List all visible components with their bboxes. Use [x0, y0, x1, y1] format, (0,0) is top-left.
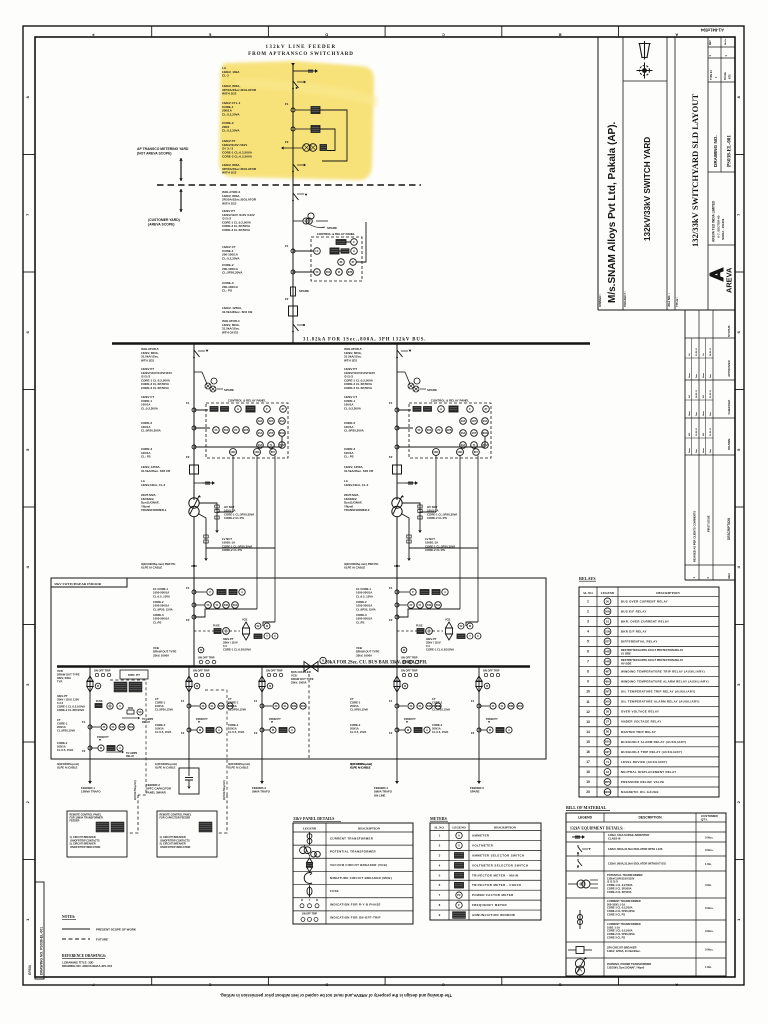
svg-text:51N: 51N: [129, 726, 134, 729]
svg-text:OVER VOLTAGE RELAY: OVER VOLTAGE RELAY: [621, 710, 659, 714]
zone tick right: [735, 154, 744, 156]
isolator-2 with earth switch: [292, 163, 294, 165]
svg-text:LEGEND: LEGEND: [452, 825, 466, 829]
svg-text:26T: 26T: [605, 690, 610, 694]
svg-text:CONTROL & RELAY PANEL: CONTROL & RELAY PANEL: [317, 232, 356, 236]
TR2 panel drop wires: [435, 456, 437, 513]
bom row4 potential transformer: [568, 883, 578, 885]
svg-text:B: B: [316, 899, 318, 902]
svg-text:kWh: kWh: [458, 452, 463, 454]
svg-text:ON OFF TRIP: ON OFF TRIP: [401, 669, 418, 673]
TR2 OLTC arrow: [393, 496, 402, 514]
zone tick right: [735, 506, 744, 508]
svg-text:Name: Name: [703, 411, 705, 416]
TR1 bay PT: [194, 371, 202, 373]
svg-text:20: 20: [586, 790, 590, 794]
bom row8 power transformer: [575, 959, 584, 968]
TR2 HV neutral CT branch: [402, 503, 436, 530]
svg-text:BUS OVER CURRENT RELAY: BUS OVER CURRENT RELAY: [621, 599, 668, 603]
type scale cells: [720, 58, 722, 82]
svg-text:F2: F2: [389, 455, 393, 459]
svg-text:49T: 49T: [269, 420, 274, 423]
svg-text:19: 19: [586, 780, 590, 784]
svg-text:A1-841x594: A1-841x594: [700, 28, 724, 33]
svg-text:A-7, SECTOR-65: A-7, SECTOR-65: [717, 215, 721, 238]
zone tick right: [735, 389, 744, 391]
svg-text:23.05.11: 23.05.11: [696, 427, 698, 436]
svg-text:Name: Name: [689, 448, 691, 453]
svg-text:POWER FACTOR METER: POWER FACTOR METER: [472, 893, 514, 897]
svg-text:F2: F2: [389, 731, 393, 735]
33kV main bus: [57, 665, 530, 667]
svg-text:63A: 63A: [258, 444, 263, 447]
svg-text:The drawing and design is the: The drawing and design is the property o…: [220, 993, 452, 998]
svg-text:A: A: [444, 591, 446, 594]
svg-text:50N: 50N: [224, 604, 229, 607]
svg-text:A: A: [508, 729, 510, 732]
svg-text:Date: Date: [709, 374, 712, 378]
svg-text:EFB: EFB: [244, 429, 249, 432]
svg-text:LEGEND: LEGEND: [303, 827, 317, 831]
svg-text:A: A: [675, 982, 678, 987]
zone tick bottom: [151, 977, 153, 985]
TR1 panel grid row b: [257, 430, 264, 437]
TR2 bay line: [396, 344, 398, 501]
svg-text:3 Nos.: 3 Nos.: [705, 906, 714, 910]
FD2 CT core2: [187, 728, 191, 732]
svg-text:18: 18: [586, 770, 590, 774]
svg-text:132kV PT132kV/110V /110V /110V: 132kV PT132kV/110V /110V /110V/3 /3 /3CO…: [222, 209, 255, 232]
svg-text:WINDING TEMPERATURE ALARM RELA: WINDING TEMPERATURE ALARM RELAY (AUXILIA…: [621, 680, 709, 684]
FD3 VCB drawout: [259, 676, 265, 692]
svg-text:B: B: [559, 982, 562, 987]
svg-text:86: 86: [606, 730, 609, 734]
svg-text:51N: 51N: [233, 604, 238, 607]
svg-text:E: E: [208, 33, 211, 38]
TR1 isolator-5 with ES: [193, 349, 195, 351]
svg-text:VACUUM CIRCUIT BREAKER (VCB): VACUUM CIRCUIT BREAKER (VCB): [330, 863, 387, 867]
TR2 panel grid row a: [460, 418, 467, 425]
svg-text:FROM PT: FROM PT: [97, 735, 109, 739]
svg-text:F1: F1: [181, 699, 185, 703]
svg-text:MTR. PT: MTR. PT: [128, 673, 140, 677]
svg-text:3 Nos.: 3 Nos.: [705, 848, 714, 852]
svg-text:86T: 86T: [271, 451, 276, 454]
svg-text:LEGEND: LEGEND: [601, 591, 615, 595]
TR1 power transformer: [189, 498, 199, 508]
svg-text:3: 3: [587, 619, 589, 623]
svg-text:DRAWING NO.: DRAWING NO.: [713, 135, 718, 167]
panel wiring: [293, 222, 366, 272]
zone tick bottom: [618, 977, 620, 985]
FEEDER-3 outgoing line: [261, 759, 263, 781]
FD4 VCB drawout: [394, 676, 400, 692]
svg-text:V: V: [119, 704, 121, 708]
svg-text:NOTES:: NOTES:: [62, 915, 75, 919]
FD2 CT core1: [187, 704, 191, 708]
svg-text:13: 13: [586, 720, 590, 724]
svg-text:DESCRIPTION: DESCRIPTION: [638, 816, 662, 820]
svg-text:F2: F2: [285, 140, 289, 144]
TR2 CT tap wires: [397, 410, 485, 447]
PT junction box: [320, 145, 327, 151]
svg-text:15: 15: [586, 740, 590, 744]
TR2 power transformer: [392, 498, 402, 508]
svg-text:E: E: [208, 982, 211, 987]
scope boundary dashed line: [157, 184, 421, 186]
svg-text:49A: 49A: [605, 680, 610, 684]
svg-text:71: 71: [606, 760, 609, 764]
CT CTL-1 core1: [291, 108, 295, 112]
svg-text:Date: Date: [709, 449, 712, 453]
TR1 CB square: [190, 465, 199, 474]
33kV switchgear enclosure: [51, 578, 546, 759]
owner cell separator: [622, 37, 624, 310]
svg-text:50N: 50N: [120, 726, 125, 729]
INC2 incomer PT branch dashed: [397, 630, 417, 632]
svg-text:BUCHHOLZ TRIP RELAY (AUXILIARY: BUCHHOLZ TRIP RELAY (AUXILIARY): [621, 750, 682, 754]
TR1 CT tap wires: [194, 410, 282, 447]
svg-text:11: 11: [586, 700, 590, 704]
FD1 MTR PT box: [120, 670, 148, 679]
svg-text:M: M: [469, 625, 471, 628]
svg-text:A: A: [675, 33, 678, 38]
svg-text:F2: F2: [254, 731, 258, 735]
svg-text:87B: 87B: [348, 271, 353, 274]
zone tick right: [735, 271, 744, 273]
svg-text:50N: 50N: [219, 705, 224, 708]
svg-text:F1: F1: [254, 699, 258, 703]
FD2 capacitor panel dashed: [205, 690, 227, 795]
TR1 LV neutral CT branch: [198, 514, 275, 559]
svg-text:AG: AG: [688, 394, 691, 398]
svg-text:VOLTMETER SELECTOR SWITCH: VOLTMETER SELECTOR SWITCH: [472, 863, 528, 867]
svg-text:F2: F2: [389, 618, 393, 622]
TR2 panel grid row b: [460, 430, 467, 437]
FEEDER-5 exit: [478, 759, 480, 781]
TR2 panel bottom relay: [473, 449, 480, 456]
svg-text:132/33kV SWITCHYARD SLD LAY: 132/33kV SWITCHYARD SLD LAYOUT: [690, 94, 700, 247]
svg-text:26T: 26T: [269, 432, 274, 435]
svg-text:FUSE: FUSE: [213, 625, 220, 628]
svg-text:FIRST ISSUE: FIRST ISSUE: [707, 515, 711, 532]
svg-text:1 No.: 1 No.: [705, 862, 712, 866]
svg-text:59: 59: [606, 710, 609, 714]
svg-text:63T: 63T: [605, 750, 610, 754]
svg-text:MASTER TRIP RELAY: MASTER TRIP RELAY: [621, 730, 656, 734]
svg-text:A: A: [353, 249, 355, 253]
bom row7 SF6 breaker: [568, 949, 576, 951]
svg-text:ON OFF TRIP: ON OFF TRIP: [302, 912, 317, 915]
svg-text:C1 CORE-11000-500/1ACL:0.5, 1: C1 CORE-11000-500/1ACL:0.5, 15VA: [356, 587, 373, 598]
projection symbol cone: [639, 41, 651, 60]
TR2 bay PT: [397, 371, 405, 373]
svg-text:132kV EQUIPMENT DETAILS:-: 132kV EQUIPMENT DETAILS:-: [570, 827, 625, 831]
INC2 incomer line to bus: [396, 592, 398, 666]
FD1 CT core2: [88, 746, 92, 750]
svg-text:MINIATURE CIRCUIT BREAKER (MCB: MINIATURE CIRCUIT BREAKER (MCB): [330, 876, 392, 880]
svg-text:132kV PT132kV/110V/110V/110V/3: 132kV PT132kV/110V/110V/110V/3 /3 /3CORE…: [141, 367, 172, 390]
svg-text:A: A: [218, 729, 220, 732]
bom row2 isolator with ES: [578, 845, 582, 854]
svg-text:VCB: VCB: [445, 619, 450, 622]
feeder control and relay panel dashed box: [311, 237, 362, 281]
svg-text:NOIDA - 201301: NOIDA - 201301: [721, 218, 725, 240]
svg-text:FREQUENCY METER: FREQUENCY METER: [472, 903, 508, 907]
svg-text:REFERENCE DRAWINGS:: REFERENCE DRAWINGS:: [62, 954, 106, 958]
revision table verticals: [684, 310, 686, 580]
svg-text:2: 2: [587, 609, 589, 613]
svg-text:2(2CX2.5Sq.mm): 2(2CX2.5Sq.mm): [134, 780, 137, 800]
svg-text:JOA NO. :: JOA NO. :: [667, 293, 671, 307]
svg-text:F2: F2: [285, 297, 289, 301]
svg-text:ON OFF TRIP: ON OFF TRIP: [193, 669, 210, 673]
svg-text:F1: F1: [285, 102, 289, 106]
svg-text:49T: 49T: [605, 670, 610, 674]
svg-text:17: 17: [586, 760, 590, 764]
svg-text:SPARE: SPARE: [327, 226, 337, 230]
revision table horizontals: [685, 337, 735, 339]
svg-text:F2: F2: [471, 731, 475, 735]
incomer1 line: [193, 578, 195, 666]
svg-text:PF: PF: [437, 429, 441, 432]
svg-text:Date: Date: [709, 412, 712, 416]
svg-text:M: M: [97, 686, 99, 688]
svg-text:UNDER VOLTAGE RELAY: UNDER VOLTAGE RELAY: [621, 720, 662, 724]
svg-text:26T: 26T: [472, 432, 477, 435]
FEEDER-4 outgoing line: [396, 759, 398, 781]
TR2 panel grid row c: [460, 442, 467, 449]
svg-text:AMMETER: AMMETER: [472, 833, 490, 837]
svg-text:TYPE 94: TYPE 94: [710, 70, 713, 80]
isolator-3 below boundary: [292, 192, 294, 194]
svg-text:63A: 63A: [483, 420, 488, 423]
svg-text:FROM PT: FROM PT: [196, 717, 208, 721]
TR1 LA branch: [194, 482, 202, 484]
svg-text:ON OFF TRIP: ON OFF TRIP: [198, 656, 215, 660]
projection symbol target circle: [640, 66, 650, 76]
svg-text:ON OFF TRIP: ON OFF TRIP: [401, 656, 418, 660]
svg-text:F1: F1: [82, 720, 86, 724]
svg-text:BUS E/F RELAY: BUS E/F RELAY: [621, 609, 647, 613]
panel details outline: [293, 823, 413, 924]
incomer2 line: [396, 578, 398, 666]
svg-text:NTS: NTS: [730, 74, 732, 79]
TR2 LV neutral CT branch: [401, 514, 478, 559]
svg-text:BKR E/F RELAY: BKR E/F RELAY: [621, 629, 647, 633]
relays table grid: [579, 587, 719, 797]
PT spare wire: [309, 221, 328, 228]
svg-text:BUCHHOLZ ALARM RELAY (AUXILIAR: BUCHHOLZ ALARM RELAY (AUXILIARY): [621, 740, 686, 744]
remote panel 2 box: [157, 811, 217, 857]
legend future line: [62, 938, 90, 940]
svg-text:51: 51: [606, 619, 609, 623]
svg-text:14: 14: [586, 730, 590, 734]
svg-text:26A: 26A: [605, 700, 610, 704]
svg-text:REVISED AS PER CLIENTS COMMENT: REVISED AS PER CLIENTS COMMENTS: [693, 511, 697, 562]
TR2 CT taps: [395, 408, 399, 412]
svg-text:M: M: [200, 650, 202, 652]
svg-text:50N: 50N: [427, 705, 432, 708]
svg-text:REMOTE CONTROL PANELFOR CAPACI: REMOTE CONTROL PANELFOR CAPACITOR FEEDER: [160, 814, 192, 820]
svg-text:A: A: [440, 407, 442, 411]
svg-text:3(3CX300Sq.mm)XLPE AI CABLE: 3(3CX300Sq.mm)XLPE AI CABLE: [228, 762, 250, 769]
FD3 bay line: [261, 667, 263, 760]
TR2 cable marker: [394, 565, 400, 567]
svg-text:kWh: kWh: [434, 452, 439, 454]
svg-text:DRAWN: DRAWN: [727, 439, 731, 450]
legend present scope line: [62, 928, 90, 930]
svg-text:TRIVECTOR METER - CHECK: TRIVECTOR METER - CHECK: [472, 883, 522, 887]
zone tick left: [23, 506, 35, 508]
svg-text:LEVEL DEVICE (AUXILIARY): LEVEL DEVICE (AUXILIARY): [621, 760, 667, 764]
svg-text:DRAWING NO. PS038-EL-001: DRAWING NO. PS038-EL-001: [40, 927, 44, 975]
svg-text:MCB: MCB: [128, 708, 133, 710]
svg-text:AREVA: AREVA: [725, 267, 734, 293]
INC1 incomer CT row1: [192, 590, 196, 594]
svg-text:02.06.11: 02.06.11: [710, 427, 712, 436]
svg-text:M: M: [403, 650, 405, 652]
CT CTL-1 core2: [291, 127, 295, 131]
svg-text:A: A: [119, 747, 121, 750]
zone tick top: [501, 26, 503, 37]
svg-text:27: 27: [606, 720, 609, 724]
TR2 LA branch: [397, 482, 405, 484]
svg-text:APPROVED: APPROVED: [727, 359, 731, 377]
zone tick top: [267, 26, 269, 37]
drawing no cell: [708, 171, 735, 173]
svg-text:SL.NO.: SL.NO.: [434, 825, 444, 829]
svg-text:FUSE: FUSE: [330, 889, 339, 893]
yard PT with spare: [293, 220, 303, 222]
svg-text:Name: Name: [703, 373, 705, 378]
FD1 annunciator windows: [114, 682, 127, 692]
svg-text:REV: REV: [710, 40, 712, 45]
svg-text:1: 1: [587, 599, 589, 603]
svg-text:PRESSURE RELIEF VALVE: PRESSURE RELIEF VALVE: [621, 780, 664, 784]
svg-text:M/s.SNAM Alloys Pvt Ltd, Paka: M/s.SNAM Alloys Pvt Ltd, Pakala (AP).: [607, 121, 618, 303]
zone tick bottom: [267, 977, 269, 985]
svg-text:METERS: METERS: [430, 816, 448, 821]
svg-text:M: M: [486, 686, 488, 688]
FD5 bay line: [478, 667, 480, 760]
zone tick right: [735, 624, 744, 626]
svg-text:CLASS-III: CLASS-III: [608, 837, 621, 841]
TR1 panel bottom relay: [270, 449, 277, 456]
svg-text:CHECKED: CHECKED: [727, 399, 731, 415]
INC2 incomer CT row1: [395, 590, 399, 594]
SF6 circuit breaker: [289, 306, 298, 316]
FEEDER-1 outgoing line: [89, 759, 91, 781]
CT wiring loop: [320, 110, 347, 161]
svg-text:INDICATION FOR R-Y-B PHASE: INDICATION FOR R-Y-B PHASE: [330, 902, 381, 906]
svg-text:PF: PF: [457, 893, 461, 897]
svg-text:49A: 49A: [258, 420, 263, 423]
svg-text:A: A: [458, 833, 460, 837]
project cell separator: [666, 37, 668, 310]
svg-text:DESCRIPTION: DESCRIPTION: [494, 826, 517, 830]
zone tick left: [23, 154, 35, 156]
svg-text:C: C: [477, 635, 479, 638]
svg-text:A: A: [241, 591, 243, 594]
svg-text:AREVA T&D INDIA LIMITED: AREVA T&D INDIA LIMITED: [712, 200, 716, 242]
svg-text:33kV SWITCHGEAR INDOOR: 33kV SWITCHGEAR INDOOR: [54, 582, 102, 586]
FEEDER-2 capacitor box: [188, 759, 190, 768]
svg-text:10: 10: [586, 690, 590, 694]
TR1 meter circles below panel: [230, 449, 237, 456]
TR1 CT taps: [192, 408, 196, 412]
svg-text:120kV, 10kA SURGE ARRESTER: 120kV, 10kA SURGE ARRESTER: [608, 833, 649, 837]
132kV main bus: [112, 342, 590, 345]
svg-text:FROM PT: FROM PT: [269, 717, 281, 721]
metering PT: [283, 147, 303, 149]
svg-text:4: 4: [587, 630, 589, 634]
TR2 control relay panel dashed box: [409, 403, 491, 458]
svg-text:F1: F1: [186, 401, 190, 405]
svg-text:PROJECT :: PROJECT :: [623, 291, 627, 307]
svg-text:C: C: [442, 33, 445, 38]
svg-text:50N: 50N: [292, 705, 297, 708]
svg-text:MAGNETIC OIL GAUGE: MAGNETIC OIL GAUGE: [621, 790, 659, 794]
svg-text:MOG: MOG: [604, 790, 610, 794]
svg-text:INDICATION FOR ON-OFF-TRIP: INDICATION FOR ON-OFF-TRIP: [330, 915, 381, 919]
FD2 VCB drawout: [186, 676, 192, 692]
svg-text:MOG: MOG: [279, 432, 285, 435]
svg-text:OIL TEMPERATURE TRIP RELAY (AU: OIL TEMPERATURE TRIP RELAY (AUXILIARY): [621, 690, 696, 694]
svg-text:REV.: REV.: [727, 572, 731, 578]
svg-text:A: A: [426, 729, 428, 732]
svg-text:64: 64: [606, 770, 609, 774]
TR1 HV neutral CT branch: [199, 503, 233, 530]
svg-text:D: D: [325, 33, 328, 38]
svg-text:FUTURE: FUTURE: [96, 938, 108, 942]
svg-text:FROM PT: FROM PT: [486, 717, 498, 721]
INC2 incomer CT row3: [395, 615, 399, 619]
svg-text:MK: MK: [703, 432, 705, 436]
projection symbol cell line: [623, 80, 667, 82]
svg-text:CONTROL & RELAY PANEL: CONTROL & RELAY PANEL: [228, 399, 267, 403]
svg-text:M: M: [266, 625, 268, 628]
AREVA logo triangle A (rotated): [710, 267, 724, 282]
svg-text:51N: 51N: [436, 604, 441, 607]
svg-text:M: M: [100, 747, 102, 750]
panel row4 relays: [314, 269, 321, 276]
svg-text:TRIVECTOR METER - MAIN: TRIVECTOR METER - MAIN: [472, 873, 518, 877]
svg-text:26A: 26A: [461, 432, 466, 435]
svg-text:2(2CX2.5Sq.mm): 2(2CX2.5Sq.mm): [223, 780, 226, 800]
svg-text:132kV PT132kV/110V/110V/110V/3: 132kV PT132kV/110V/110V/110V/3 /3 /3CORE…: [344, 367, 375, 390]
isolator-4: [292, 323, 294, 325]
svg-text:51N: 51N: [427, 429, 432, 432]
TR1 panel row2: [213, 427, 220, 434]
svg-text:AMMETER SELECTOR SWITCH: AMMETER SELECTOR SWITCH: [472, 853, 525, 857]
svg-text:A: A: [291, 729, 293, 732]
svg-text:64R: 64R: [605, 649, 610, 653]
svg-text:ISOLATOR-4132kV, 800A,31.5kA/1: ISOLATOR-4132kV, 800A,31.5kA/1Sec.WTH O/…: [222, 319, 240, 334]
INC2 incomer CT row2: [395, 603, 399, 607]
FD2 bay line: [188, 667, 190, 760]
svg-text:3 Nos.: 3 Nos.: [705, 836, 714, 840]
svg-text:C1 CORE-11000-500/1ACL:0.5, 1: C1 CORE-11000-500/1ACL:0.5, 15VA: [153, 587, 170, 598]
svg-text:OWNER :: OWNER :: [598, 294, 602, 307]
svg-text:5: 5: [587, 640, 589, 644]
svg-text:M: M: [322, 660, 324, 662]
svg-text:3 Nos.: 3 Nos.: [705, 948, 714, 952]
svg-text:M: M: [199, 729, 201, 732]
bus coupler bowtie VCB: [304, 662, 318, 672]
svg-text:Name: Name: [703, 448, 705, 453]
svg-text:51N: 51N: [605, 629, 610, 633]
